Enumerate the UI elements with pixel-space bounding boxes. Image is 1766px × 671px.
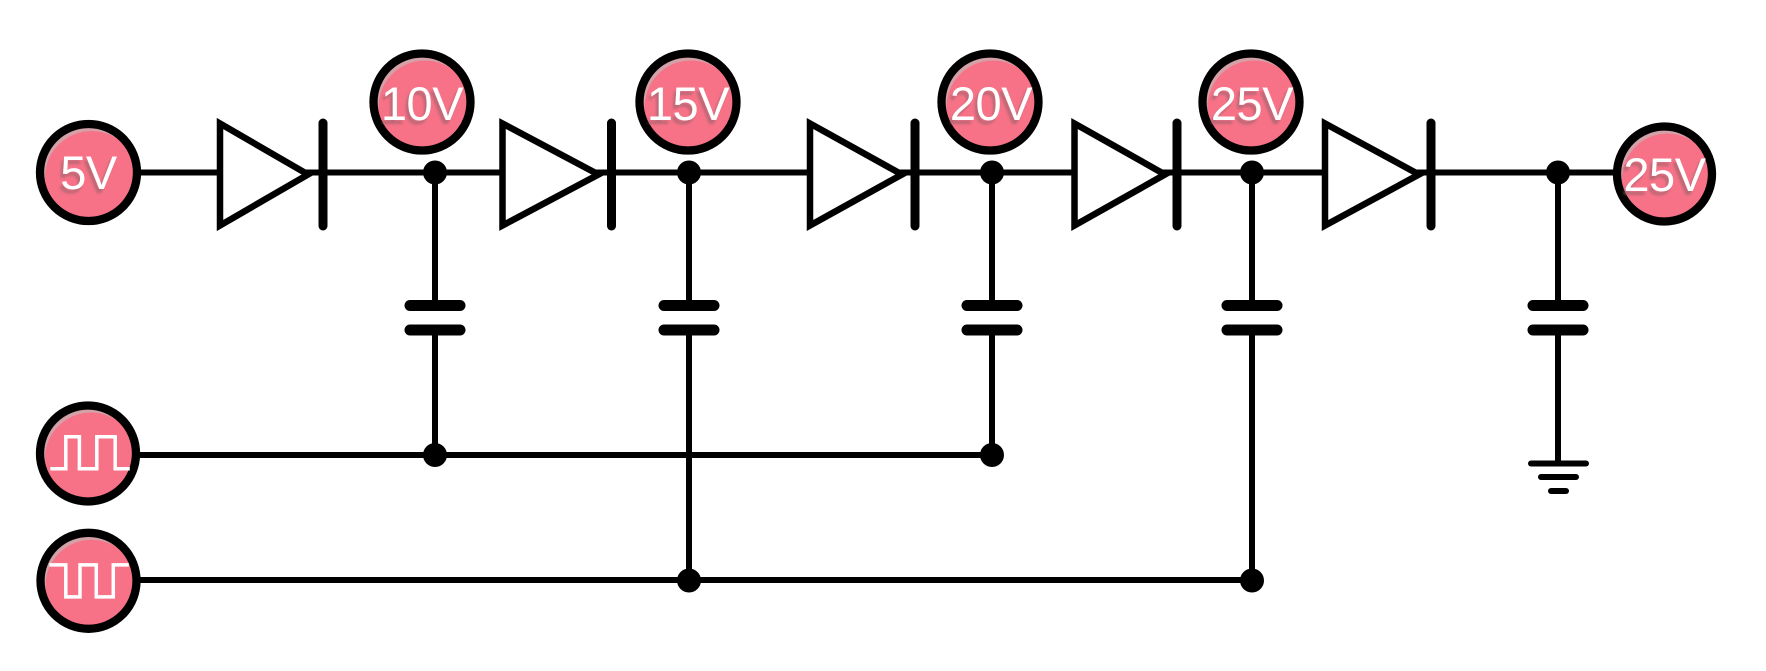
wire cap C3 to clock phi1 bbox=[989, 333, 995, 455]
wire cap C1 to clock phi1 bbox=[432, 333, 438, 455]
node output junction bbox=[1546, 161, 1570, 185]
capacitor C4 bbox=[1227, 306, 1277, 331]
node C3 phi1 junction bbox=[980, 443, 1004, 467]
svg-text:20V: 20V bbox=[950, 77, 1033, 130]
wire cap C2 drop bbox=[686, 173, 692, 303]
node C1 phi1 junction bbox=[423, 443, 447, 467]
output label 25V bbox=[1617, 127, 1713, 225]
svg-text:15V: 15V bbox=[647, 77, 730, 130]
svg-text:25V: 25V bbox=[1623, 148, 1706, 201]
node 25V junction bbox=[1240, 161, 1264, 185]
wire cap C5 to ground bbox=[1555, 333, 1561, 463]
node C2 phi2 junction bbox=[677, 569, 701, 593]
ground bbox=[1531, 464, 1586, 492]
capacitor C1 bbox=[410, 306, 460, 331]
wire clock phi1 rail bbox=[110, 452, 992, 458]
svg-text:10V: 10V bbox=[381, 77, 464, 130]
clock source CLK2 phi2 bbox=[41, 533, 138, 632]
wire cap C4 drop bbox=[1249, 173, 1255, 303]
capacitor C3 bbox=[967, 306, 1017, 331]
diode D4 bbox=[1075, 123, 1178, 226]
diode D1 bbox=[220, 123, 323, 226]
wire cap C2 to clock phi2 bbox=[686, 333, 692, 580]
node 20V junction bbox=[980, 161, 1004, 185]
node label 20V bbox=[942, 54, 1040, 154]
diode D3 bbox=[810, 123, 915, 226]
node label 10V bbox=[374, 54, 472, 154]
wire clock phi2 rail bbox=[110, 577, 1252, 583]
wire cap C1 drop bbox=[432, 173, 438, 303]
source V1 5V bbox=[40, 124, 138, 224]
node label 25V bbox=[1203, 54, 1301, 154]
capacitor C5 bbox=[1533, 306, 1583, 331]
node 15V junction bbox=[677, 161, 701, 185]
diode D2 bbox=[503, 123, 612, 226]
svg-text:5V: 5V bbox=[60, 146, 118, 199]
wire cap C5 drop bbox=[1555, 173, 1561, 303]
node C4 phi2 junction bbox=[1240, 569, 1264, 593]
node label 15V bbox=[640, 54, 738, 154]
capacitor C2 bbox=[664, 306, 714, 331]
wire cap C4 to clock phi2 bbox=[1249, 333, 1255, 580]
clock source CLK1 phi1 bbox=[40, 406, 137, 505]
wire main rail bbox=[120, 170, 1630, 176]
node 10V junction bbox=[423, 161, 447, 185]
svg-text:25V: 25V bbox=[1211, 77, 1294, 130]
diode D5 bbox=[1325, 123, 1431, 226]
wire cap C3 drop bbox=[989, 173, 995, 303]
